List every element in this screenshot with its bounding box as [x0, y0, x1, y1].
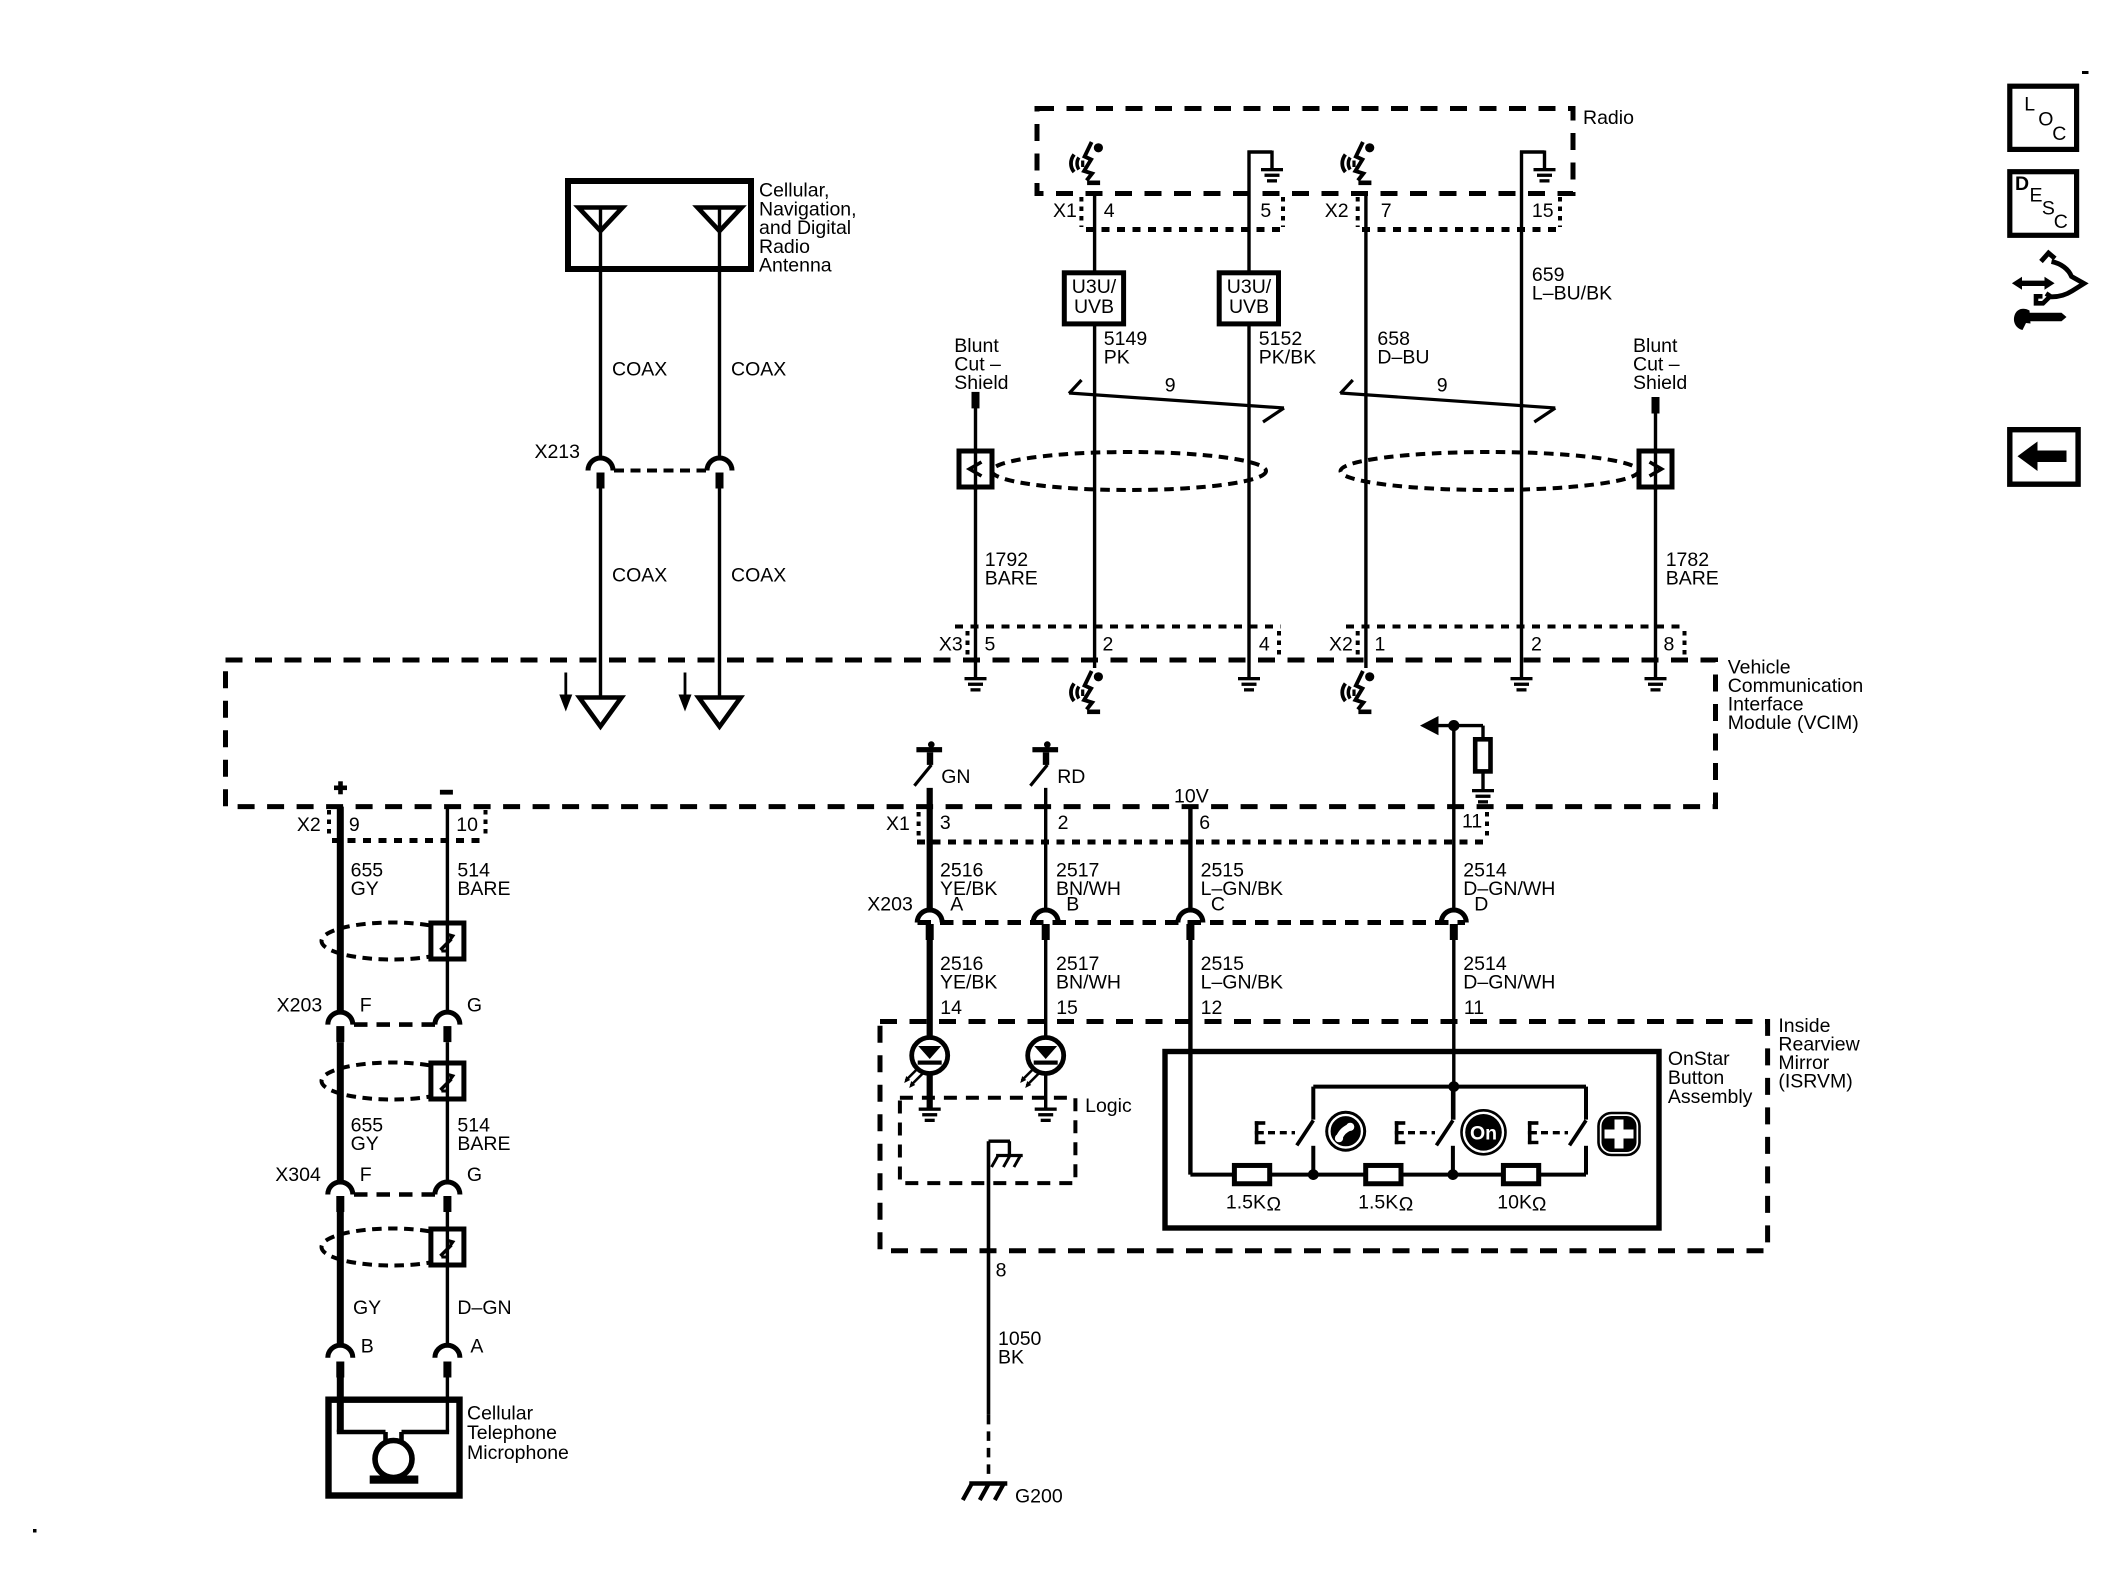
connector X203 pin B: [1033, 894, 1079, 941]
letter E switch 1: [1255, 1121, 1259, 1144]
svg-text:X213: X213: [534, 441, 580, 463]
wire 2517 BN/WH (lower): [1044, 940, 1047, 1038]
svg-text:4: 4: [1104, 200, 1115, 222]
wire 2514 D-GN/WH (lower): [1452, 940, 1455, 1120]
wire D-GN (3): [446, 1212, 449, 1345]
svg-text:BARE: BARE: [985, 568, 1038, 590]
inner top wire: [1313, 1085, 1586, 1089]
page mark bottom left: [33, 1529, 37, 1533]
svg-text:1: 1: [1375, 634, 1386, 656]
twisted pair marker 9 (right pair): [1340, 375, 1555, 423]
label 1.5K ohm #2: [1358, 1192, 1413, 1216]
wire 5152 PK/BK: [1247, 194, 1250, 661]
antenna assembly box: [568, 181, 751, 269]
connector row X2 (radio): [1325, 197, 1560, 230]
svg-text:C: C: [2054, 211, 2068, 233]
svg-text:BK: BK: [998, 1347, 1024, 1369]
svg-text:G: G: [467, 1164, 482, 1186]
wire 5149 PK: [1093, 194, 1096, 661]
svg-text:14: 14: [940, 997, 962, 1019]
phone button: [1325, 1111, 1366, 1152]
U3U/UVB option box 1: [1064, 273, 1123, 324]
svg-text:GY: GY: [351, 878, 379, 900]
svg-text:G: G: [467, 995, 482, 1017]
wire into mic box left: [337, 1378, 344, 1433]
svg-text:9: 9: [349, 814, 360, 836]
DESC icon: [2010, 172, 2077, 236]
connector X203 pin A: [917, 894, 963, 941]
ground under X3-5: [965, 660, 987, 692]
svg-text:7: 7: [1381, 200, 1392, 222]
wire COAX upper-right: [718, 269, 721, 458]
connector pin A (mic): [435, 1336, 484, 1378]
svg-text:11: 11: [1464, 997, 1484, 1019]
svg-text:8: 8: [996, 1259, 1007, 1281]
svg-text:Ω: Ω: [1532, 1194, 1547, 1216]
wire 1050 BK dashed tail: [987, 1415, 991, 1479]
ground under X3-4: [1238, 660, 1260, 692]
svg-text:RD: RD: [1057, 766, 1085, 788]
wire 2516 YE/BK (lower): [927, 940, 933, 1038]
ground LED B: [1035, 1108, 1057, 1111]
arrow to resistor (VCIM): [1420, 716, 1483, 735]
wire 514 BARE (1): [446, 807, 449, 1013]
ISRVM module box: [880, 1022, 1768, 1251]
LED A: [912, 1038, 948, 1074]
svg-text:11: 11: [1462, 811, 1482, 833]
svg-text:Ω: Ω: [1267, 1194, 1282, 1216]
svg-text:2: 2: [1103, 634, 1114, 656]
svg-text:PK: PK: [1104, 347, 1130, 369]
wire GY (3): [337, 1212, 344, 1345]
switch 3 (cross): [1570, 1087, 1587, 1175]
svg-text:15: 15: [1532, 200, 1554, 222]
svg-text:Shield: Shield: [1633, 372, 1687, 394]
wire 655 GY (2): [337, 1042, 344, 1182]
svg-text:9: 9: [1165, 375, 1176, 397]
label - (mic negative): [440, 790, 453, 795]
twisted pair marker 9 (left pair): [1069, 375, 1284, 423]
svg-text:Telephone: Telephone: [467, 1422, 557, 1444]
svg-text:U3U/: U3U/: [1072, 276, 1117, 298]
svg-text:PK/BK: PK/BK: [1259, 347, 1316, 369]
svg-text:X2: X2: [1329, 634, 1353, 656]
connector row X1 (radio): [1053, 197, 1283, 230]
cross button: [1599, 1113, 1640, 1155]
svg-text:1.5K: 1.5K: [1358, 1192, 1398, 1214]
RD probe: [1030, 741, 1058, 786]
svg-text:9: 9: [1437, 375, 1448, 397]
svg-text:UVB: UVB: [1229, 296, 1269, 318]
resistor 1.5K #1: [1234, 1165, 1269, 1183]
svg-text:2: 2: [1531, 634, 1542, 656]
GN probe: [914, 741, 942, 786]
svg-text:8: 8: [1664, 634, 1675, 656]
resistor chain wire 2-3: [1399, 1173, 1503, 1177]
shield connector square left: [959, 451, 992, 487]
wire 655 GY (1): [337, 807, 344, 1013]
connector X304 pin G: [435, 1164, 482, 1212]
connector row X3 (VCIM): [939, 627, 1281, 658]
ground LED A: [919, 1108, 941, 1111]
svg-text:BARE: BARE: [1666, 568, 1719, 590]
junction dot #1: [1308, 1169, 1319, 1180]
shield square mic 2: [431, 1063, 464, 1099]
shield ellipse right pair: [1341, 452, 1639, 490]
connector X203 pin D: [1441, 894, 1488, 941]
svg-text:10K: 10K: [1497, 1192, 1532, 1214]
ground (VCIM resistor): [1472, 789, 1494, 792]
svg-text:Antenna: Antenna: [759, 255, 832, 277]
resistor 1.5K #2: [1366, 1165, 1401, 1183]
svg-text:BARE: BARE: [457, 1133, 510, 1155]
arrow into VCIM left (open triangle): [580, 698, 622, 727]
mic icon radio right: [1342, 142, 1374, 183]
G200 ground: [963, 1484, 1008, 1501]
svg-text:COAX: COAX: [731, 565, 786, 587]
svg-text:G200: G200: [1015, 1486, 1063, 1508]
wire 2515 L-GN/BK (lower): [1188, 940, 1192, 1175]
svg-text:D: D: [2015, 173, 2029, 195]
svg-text:(ISRVM): (ISRVM): [1778, 1071, 1852, 1093]
wire 2514 D-GN/WH (upper): [1452, 726, 1455, 910]
arrow into VCIM right (small): [679, 673, 692, 712]
antenna symbol 2: [698, 208, 742, 270]
letter E switch 3: [1528, 1121, 1532, 1144]
svg-text:D–BU: D–BU: [1377, 347, 1429, 369]
blunt cut stub right: [1652, 397, 1660, 414]
svg-text:X1: X1: [886, 813, 910, 835]
shield ellipse mic 2: [322, 1063, 463, 1100]
ground symbol radio right: [1520, 151, 1556, 194]
connector X304 pin F: [328, 1164, 372, 1212]
label 1.5K ohm #1: [1226, 1192, 1281, 1216]
svg-text:12: 12: [1201, 997, 1223, 1019]
mic icon VCIM left: [1071, 660, 1103, 712]
wire into mic box right: [446, 1378, 449, 1433]
svg-text:Cellular: Cellular: [467, 1402, 534, 1424]
VCIM module box: [226, 660, 1716, 807]
connector row X203 (A-D): [867, 894, 1465, 923]
svg-text:On: On: [1470, 1123, 1497, 1145]
svg-text:UVB: UVB: [1074, 296, 1114, 318]
svg-text:D–GN: D–GN: [457, 1297, 511, 1319]
svg-text:Assembly: Assembly: [1668, 1086, 1753, 1108]
connector X213 right half: [707, 458, 732, 489]
svg-text:COAX: COAX: [612, 565, 667, 587]
ground under X2-8: [1645, 660, 1667, 692]
Logic box: [900, 1098, 1076, 1183]
svg-text:COAX: COAX: [731, 359, 786, 381]
wire 1050 BK: [987, 1141, 991, 1415]
harness routing icon: [2012, 253, 2084, 330]
connector X203 pin F: [328, 995, 372, 1043]
wire LED B to ground: [1044, 1074, 1047, 1108]
wire 1792 BARE: [974, 408, 977, 660]
E dashes switch 1: [1268, 1131, 1295, 1134]
svg-text:Microphone: Microphone: [467, 1442, 569, 1464]
connector X203 pin G: [435, 995, 482, 1043]
svg-text:F: F: [360, 995, 372, 1017]
page mark top right: [2082, 71, 2089, 74]
wire 2516 YE/BK (upper): [927, 788, 933, 910]
junction dot (D wire): [1448, 1081, 1459, 1092]
connector row X1 (VCIM bottom): [886, 811, 1487, 843]
connector row X2 (VCIM): [1329, 627, 1686, 658]
connector pin B (mic): [328, 1336, 374, 1378]
wire 659 L-BU/BK: [1520, 194, 1523, 661]
svg-text:YE/BK: YE/BK: [940, 971, 997, 993]
svg-text:5: 5: [985, 634, 996, 656]
wire LED A to ground: [927, 1074, 933, 1108]
svg-text:Module (VCIM): Module (VCIM): [1728, 712, 1859, 734]
svg-text:Radio: Radio: [1583, 107, 1634, 129]
connector X203 pin C: [1178, 894, 1225, 941]
svg-text:X2: X2: [297, 814, 321, 836]
junction dot #2: [1448, 1169, 1459, 1180]
svg-text:X1: X1: [1053, 200, 1077, 222]
ground under X2-2: [1511, 660, 1533, 692]
svg-text:GN: GN: [941, 766, 970, 788]
svg-text:C: C: [2052, 123, 2066, 145]
svg-text:B: B: [1066, 894, 1079, 916]
back arrow icon: [2010, 430, 2078, 485]
mic icon VCIM right: [1342, 660, 1374, 712]
svg-text:U3U/: U3U/: [1227, 276, 1272, 298]
svg-text:D: D: [1474, 894, 1488, 916]
svg-text:Ω: Ω: [1399, 1194, 1414, 1216]
svg-text:GY: GY: [351, 1133, 379, 1155]
wire 2517 BN/WH (upper): [1044, 788, 1047, 910]
antenna symbol 1: [579, 208, 623, 270]
svg-text:L: L: [2024, 94, 2035, 116]
E dashes switch 3: [1541, 1131, 1568, 1134]
wire 2515 L-GN/BK (upper): [1188, 807, 1192, 910]
svg-text:6: 6: [1199, 812, 1210, 834]
svg-text:5: 5: [1260, 200, 1271, 222]
svg-text:D–GN/WH: D–GN/WH: [1463, 971, 1555, 993]
svg-text:A: A: [470, 1336, 483, 1358]
label 10K ohm: [1497, 1192, 1546, 1216]
connector row X203 (mic): [277, 995, 435, 1025]
svg-text:1.5K: 1.5K: [1226, 1192, 1266, 1214]
svg-text:X203: X203: [277, 995, 323, 1017]
connector X213 left half: [588, 458, 613, 489]
label + (mic positive): [334, 781, 347, 794]
svg-text:X203: X203: [867, 894, 913, 916]
svg-text:Logic: Logic: [1085, 1095, 1132, 1117]
svg-text:X304: X304: [275, 1164, 321, 1186]
resistor 10K: [1503, 1165, 1538, 1183]
svg-text:15: 15: [1056, 997, 1078, 1019]
mic icon radio left: [1071, 142, 1103, 183]
svg-text:4: 4: [1259, 634, 1270, 656]
svg-text:L–BU/BK: L–BU/BK: [1532, 283, 1612, 305]
resistor (VCIM): [1475, 726, 1490, 789]
svg-text:E: E: [2030, 185, 2043, 207]
svg-text:X2: X2: [1325, 200, 1349, 222]
resistor chain wire 1-2: [1270, 1173, 1366, 1177]
svg-text:BN/WH: BN/WH: [1056, 971, 1121, 993]
LOC icon: [2010, 86, 2077, 149]
svg-text:10V: 10V: [1174, 786, 1209, 808]
shield ellipse left pair: [992, 452, 1266, 490]
connector X213 link: [614, 469, 706, 473]
Radio module box: [1037, 109, 1573, 194]
svg-text:B: B: [361, 1336, 374, 1358]
svg-text:C: C: [1211, 894, 1225, 916]
svg-text:10: 10: [456, 814, 478, 836]
wire 514 BARE (2): [446, 1042, 449, 1182]
Cellular Telephone Microphone box: [329, 1400, 460, 1496]
chassis ground (Logic): [989, 1141, 1023, 1167]
blunt cut stub left: [972, 392, 980, 409]
svg-text:A: A: [950, 894, 963, 916]
svg-text:3: 3: [940, 812, 951, 834]
svg-text:COAX: COAX: [612, 359, 667, 381]
svg-text:BARE: BARE: [457, 878, 510, 900]
svg-text:O: O: [2038, 109, 2053, 131]
shield ellipse mic 1: [322, 923, 463, 960]
connector row X2 (9/10): [297, 810, 486, 841]
shield square mic 3: [431, 1229, 464, 1265]
arrow into VCIM left (small): [559, 673, 572, 712]
svg-text:Shield: Shield: [954, 372, 1008, 394]
svg-text:YE/BK: YE/BK: [940, 878, 997, 900]
wire 1782 BARE: [1654, 414, 1657, 661]
connector row X304 (mic): [275, 1164, 435, 1195]
shield square mic 1: [431, 923, 464, 959]
switch 2 (On): [1436, 1087, 1453, 1175]
svg-text:GY: GY: [353, 1297, 381, 1319]
microphone symbol: [337, 1432, 449, 1484]
OnStar button assembly box: [1165, 1052, 1659, 1229]
U3U/UVB option box 2: [1219, 273, 1278, 324]
svg-text:F: F: [360, 1164, 372, 1186]
svg-text:2: 2: [1058, 812, 1069, 834]
E dashes switch 2: [1408, 1131, 1435, 1134]
ground symbol radio left: [1248, 151, 1284, 194]
wire COAX upper-left: [599, 269, 602, 458]
wire 2515 inside OnStar box: [1190, 1173, 1234, 1177]
arrow into VCIM right (open triangle): [699, 698, 741, 727]
wire COAX lower-right: [718, 489, 721, 698]
wire 658 D-BU: [1364, 194, 1367, 661]
resistor chain wire 3-end: [1537, 1173, 1586, 1177]
shield connector square right: [1639, 451, 1672, 487]
wire COAX lower-left: [599, 489, 602, 698]
LED B: [1028, 1038, 1064, 1074]
letter E switch 2: [1395, 1121, 1399, 1144]
svg-text:L–GN/BK: L–GN/BK: [1201, 971, 1283, 993]
switch 1 (phone): [1297, 1087, 1314, 1175]
shield ellipse mic 3: [322, 1229, 463, 1266]
svg-text:X3: X3: [939, 634, 963, 656]
On button: [1462, 1110, 1506, 1154]
